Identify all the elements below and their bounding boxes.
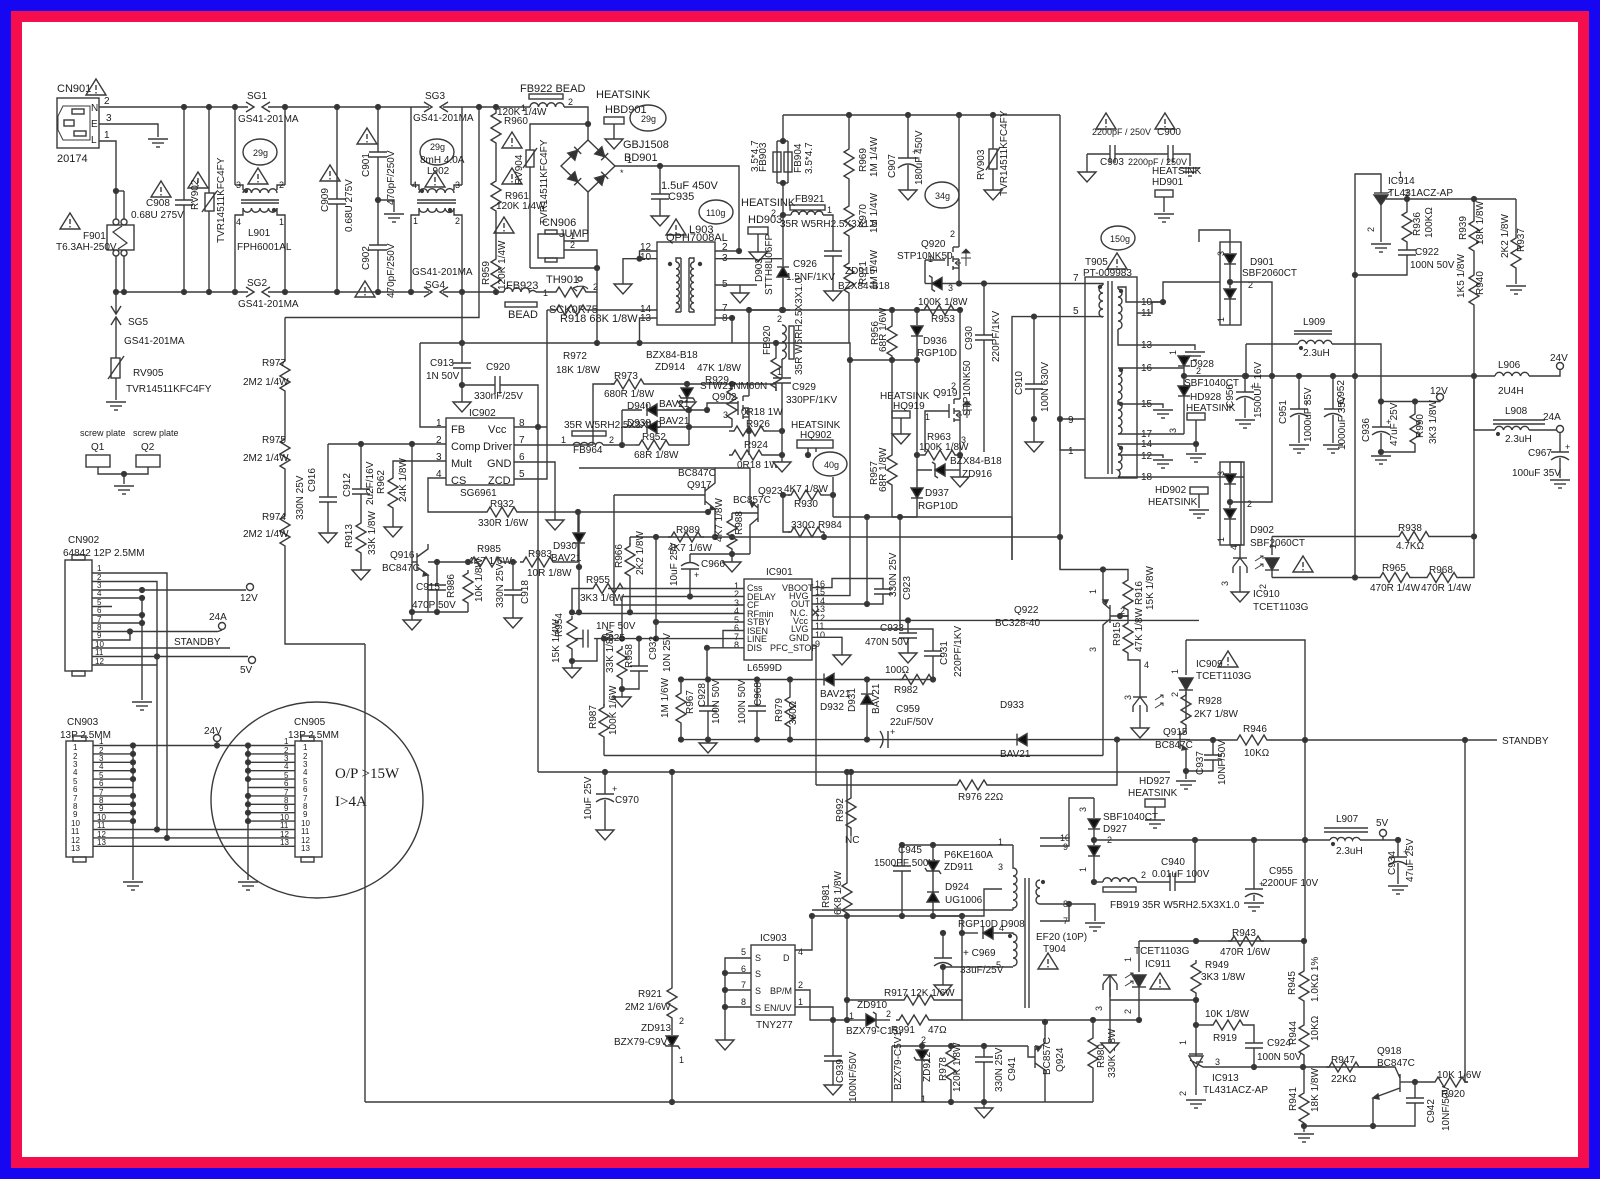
wire HV rail xyxy=(783,114,1060,116)
svg-text:11: 11 xyxy=(71,827,80,836)
svg-text:SG6961: SG6961 xyxy=(460,488,497,499)
resistor R959 xyxy=(491,256,501,292)
resistor R980 xyxy=(1088,1020,1098,1102)
resistor R975 xyxy=(280,436,290,513)
wire y343 rail xyxy=(420,342,776,344)
wire R943 line xyxy=(1139,940,1304,942)
svg-text:470pF/250V: 470pF/250V xyxy=(386,243,397,298)
wire y845 primary rail xyxy=(902,844,1013,846)
capacitor C915 xyxy=(428,562,446,612)
svg-text:+ C969: + C969 xyxy=(963,948,996,959)
svg-text:O/P >15W: O/P >15W xyxy=(335,766,400,782)
resistor R967 xyxy=(676,680,686,740)
svg-text:R939: R939 xyxy=(1458,216,1469,240)
svg-text:STTH8L06FP: STTH8L06FP xyxy=(764,234,775,295)
svg-text:5V: 5V xyxy=(1376,818,1389,829)
svg-text:110g: 110g xyxy=(706,208,725,218)
svg-text:3: 3 xyxy=(1168,428,1178,433)
svg-text:TVR14511KFC4FY: TVR14511KFC4FY xyxy=(539,139,550,225)
svg-text:1: 1 xyxy=(543,288,548,298)
resistor R949 xyxy=(1191,960,1201,1025)
winding C xyxy=(1118,446,1122,477)
svg-text:GS41-201MA: GS41-201MA xyxy=(238,299,299,310)
svg-text:12: 12 xyxy=(1141,451,1153,462)
wire SG5 branch xyxy=(115,292,117,300)
svg-text:R966: R966 xyxy=(614,544,625,568)
pin6 GND wire xyxy=(514,462,555,520)
svg-text:C936: C936 xyxy=(1361,418,1372,442)
svg-text:2: 2 xyxy=(886,1009,891,1019)
svg-text:29g: 29g xyxy=(430,142,445,152)
svg-text:0.68U 275V: 0.68U 275V xyxy=(131,210,184,221)
svg-text:2M2 1/4W: 2M2 1/4W xyxy=(243,529,289,540)
wire y517 line xyxy=(833,516,1012,518)
svg-text:0.68U 275V: 0.68U 275V xyxy=(344,179,355,232)
svg-text:2: 2 xyxy=(1123,1009,1133,1014)
capacitor C934 xyxy=(1389,838,1407,884)
svg-text:C930: C930 xyxy=(964,326,975,350)
svg-text:29g: 29g xyxy=(253,148,268,158)
svg-text:3K3 1/8W: 3K3 1/8W xyxy=(1428,400,1439,444)
wire pin13 to gnd xyxy=(1137,345,1195,350)
svg-text:C916: C916 xyxy=(307,468,318,492)
svg-text:4: 4 xyxy=(798,947,803,957)
svg-text:2: 2 xyxy=(609,435,614,445)
diode D901 dual xyxy=(1220,242,1241,325)
svg-text:2: 2 xyxy=(279,180,284,190)
svg-text:470R 1/4W: 470R 1/4W xyxy=(1421,583,1472,594)
svg-text:1M 1/6W: 1M 1/6W xyxy=(660,677,671,718)
wire gnd line xyxy=(1304,1125,1373,1127)
capacitor C916 xyxy=(319,444,337,533)
svg-text:1: 1 xyxy=(627,155,632,165)
varistor RV903 xyxy=(986,115,1000,190)
svg-text:9: 9 xyxy=(1063,842,1068,852)
output spec ellipse xyxy=(211,702,423,898)
ground xyxy=(106,402,126,410)
svg-text:Vcc: Vcc xyxy=(488,424,507,436)
wire to bridge xyxy=(564,107,588,140)
svg-text:C929: C929 xyxy=(792,382,816,393)
svg-text:HD928: HD928 xyxy=(1190,392,1222,403)
svg-text:TCET1103G: TCET1103G xyxy=(1196,671,1252,682)
svg-text:C901: C901 xyxy=(361,153,372,177)
svg-text:4: 4 xyxy=(412,180,417,190)
svg-text:33K 1/8W: 33K 1/8W xyxy=(367,511,378,555)
wire ref line xyxy=(1234,1066,1385,1068)
svg-text:34g: 34g xyxy=(935,191,950,201)
junction dots bottom rail xyxy=(114,290,119,295)
svg-text:470pF/250V: 470pF/250V xyxy=(386,150,397,205)
svg-text:S: S xyxy=(755,1003,761,1013)
svg-text:2K2 1/8W: 2K2 1/8W xyxy=(635,531,646,575)
svg-text:47uF 25V: 47uF 25V xyxy=(1389,402,1400,446)
resistor R962 xyxy=(388,475,398,527)
svg-text:3: 3 xyxy=(998,862,1003,872)
capacitor C952 xyxy=(1324,376,1342,443)
capacitor C908 xyxy=(175,107,193,292)
svg-text:3: 3 xyxy=(1216,471,1226,476)
wire IC903 drain xyxy=(795,916,812,950)
svg-text:R972: R972 xyxy=(563,351,587,362)
svg-text:Mult: Mult xyxy=(451,458,472,470)
pin3 Mult wire xyxy=(393,461,446,475)
svg-text:3: 3 xyxy=(1094,1006,1104,1011)
svg-text:330N 25V: 330N 25V xyxy=(295,475,306,520)
svg-text:C959: C959 xyxy=(896,704,920,715)
svg-text:330N 25V: 330N 25V xyxy=(888,552,899,597)
svg-text:5V: 5V xyxy=(240,665,253,676)
svg-text:100KΩ: 100KΩ xyxy=(1424,207,1435,238)
svg-text:2: 2 xyxy=(455,216,460,226)
svg-text:2: 2 xyxy=(921,1035,926,1045)
svg-text:13: 13 xyxy=(301,844,310,853)
svg-text:15K 1/4W: 15K 1/4W xyxy=(551,619,562,663)
wire pin15 to gnd xyxy=(1137,404,1163,408)
transformer L903 xyxy=(657,242,715,325)
svg-text:S: S xyxy=(755,986,761,996)
svg-text:330N 25V: 330N 25V xyxy=(994,1047,1005,1092)
svg-text:IC902: IC902 xyxy=(469,408,496,419)
svg-text:2: 2 xyxy=(798,980,803,990)
svg-text:4: 4 xyxy=(1144,660,1149,670)
svg-text:100NF/50V: 100NF/50V xyxy=(848,1051,859,1102)
node C901/C902 to ground xyxy=(376,198,381,203)
svg-text:1K5 1/8W: 1K5 1/8W xyxy=(1456,254,1467,298)
resistor R992 xyxy=(846,770,856,836)
svg-text:47K 1/8W: 47K 1/8W xyxy=(697,363,741,374)
svg-text:10uF 25V: 10uF 25V xyxy=(583,776,594,820)
svg-text:TVR14511KFC4FY: TVR14511KFC4FY xyxy=(126,384,212,395)
svg-text:5: 5 xyxy=(741,947,746,957)
capacitor C918 xyxy=(504,562,522,618)
svg-text:L906: L906 xyxy=(1498,360,1521,371)
svg-text:1: 1 xyxy=(561,435,566,445)
svg-text:6: 6 xyxy=(284,779,289,788)
wire long y1102 xyxy=(365,1101,1093,1103)
svg-text:HEATSINK: HEATSINK xyxy=(1128,788,1178,799)
svg-text:6: 6 xyxy=(73,785,78,794)
svg-text:3: 3 xyxy=(1216,251,1226,256)
svg-text:18K 1/8W: 18K 1/8W xyxy=(1310,1068,1321,1112)
wire pin14/12 xyxy=(1137,443,1196,445)
svg-text:STW21NM60N: STW21NM60N xyxy=(700,381,767,392)
svg-text:R975: R975 xyxy=(262,435,286,446)
svg-text:C923: C923 xyxy=(902,576,913,600)
svg-text:4: 4 xyxy=(1229,545,1239,550)
svg-text:BC847C: BC847C xyxy=(382,563,420,574)
svg-text:+: + xyxy=(612,784,617,794)
svg-text:ZD912: ZD912 xyxy=(922,1052,933,1082)
svg-text:L: L xyxy=(91,135,97,146)
zener ZD916 xyxy=(917,455,960,478)
svg-text:TNY277: TNY277 xyxy=(756,1020,793,1031)
winding A xyxy=(1118,289,1122,329)
svg-text:JUMP: JUMP xyxy=(559,228,589,240)
svg-text:1: 1 xyxy=(679,1055,684,1065)
capacitor C920 xyxy=(462,376,538,427)
svg-text:680R 1/8W: 680R 1/8W xyxy=(604,389,655,400)
svg-text:R944: R944 xyxy=(1288,1021,1299,1045)
wire N top rail xyxy=(99,106,248,108)
svg-text:100N 50V: 100N 50V xyxy=(737,679,748,724)
svg-text:330N 25V: 330N 25V xyxy=(495,563,506,608)
svg-text:2.3uH: 2.3uH xyxy=(1505,434,1532,445)
svg-text:35R W5RH2.5X3X1.0: 35R W5RH2.5X3X1.0 xyxy=(794,277,805,375)
svg-text:1: 1 xyxy=(303,743,308,752)
svg-text:C935: C935 xyxy=(668,191,694,203)
resistor R969 xyxy=(844,115,854,203)
pin5 STBY wire xyxy=(656,621,744,623)
svg-text:3: 3 xyxy=(1220,581,1230,586)
svg-text:6K8 1/8W: 6K8 1/8W xyxy=(833,871,844,915)
resistor R986 xyxy=(463,570,473,612)
svg-text:2: 2 xyxy=(570,240,575,250)
ferrite bead FB904 xyxy=(777,139,792,266)
svg-text:470P 50V: 470P 50V xyxy=(412,600,456,611)
capacitor C936b 47uF xyxy=(1372,402,1390,453)
svg-text:24A: 24A xyxy=(1543,412,1561,423)
svg-text:22KΩ: 22KΩ xyxy=(1331,1074,1357,1085)
ferrite bead FB903 xyxy=(773,115,783,183)
svg-text:220PF/1KV: 220PF/1KV xyxy=(953,626,964,677)
resistor R928 xyxy=(1181,692,1191,731)
wire EN/UV pin xyxy=(795,1007,833,1020)
svg-text:2.3uH: 2.3uH xyxy=(1336,846,1363,857)
svg-text:64842 12P 2.5MM: 64842 12P 2.5MM xyxy=(63,548,145,559)
svg-text:470R 1/4W: 470R 1/4W xyxy=(1370,583,1421,594)
svg-text:3: 3 xyxy=(1123,695,1133,700)
svg-text:1: 1 xyxy=(279,217,284,227)
svg-text:C939: C939 xyxy=(835,1059,846,1083)
svg-text:BC328-40: BC328-40 xyxy=(995,618,1040,629)
svg-text:3: 3 xyxy=(1078,807,1088,812)
svg-text:4: 4 xyxy=(284,762,289,771)
svg-text:D931: D931 xyxy=(847,688,858,712)
capacitor C931 xyxy=(891,629,942,680)
wire D901 pin2 down xyxy=(1230,282,1272,376)
svg-text:C931: C931 xyxy=(939,641,950,665)
svg-text:100K 1/6W: 100K 1/6W xyxy=(608,685,619,735)
svg-text:R967: R967 xyxy=(685,690,696,714)
resistor R941 xyxy=(1299,1067,1309,1126)
resistor R916 xyxy=(1120,577,1133,616)
svg-text:1000uF 35V: 1000uF 35V xyxy=(1337,395,1348,450)
resistor R937 xyxy=(1511,199,1521,284)
svg-text:R959: R959 xyxy=(481,261,492,285)
wire R946 line xyxy=(1180,739,1186,741)
wire IC914 top rail xyxy=(1407,198,1516,200)
svg-text:R965: R965 xyxy=(1382,563,1406,574)
svg-text:4.7KΩ: 4.7KΩ xyxy=(1396,541,1425,552)
weight 150g xyxy=(1101,226,1135,250)
svg-text:EN/UV: EN/UV xyxy=(764,1003,792,1013)
svg-text:D928: D928 xyxy=(1190,359,1214,370)
svg-text:R949: R949 xyxy=(1205,960,1229,971)
resistor R958 xyxy=(617,646,627,697)
svg-text:3: 3 xyxy=(723,410,728,420)
wire y1022 rail xyxy=(962,1019,1139,1021)
pin3 CF wire xyxy=(614,495,744,605)
svg-text:BAV21: BAV21 xyxy=(1000,749,1031,760)
svg-text:4K7 1/8W: 4K7 1/8W xyxy=(714,498,725,542)
pin13 NC xyxy=(812,609,819,616)
svg-text:SG3: SG3 xyxy=(425,91,445,102)
svg-text:R921: R921 xyxy=(638,989,662,1000)
varistor RV904 xyxy=(523,148,537,268)
svg-text:100N 50V: 100N 50V xyxy=(1257,1052,1302,1063)
svg-text:C942: C942 xyxy=(1426,1099,1437,1123)
svg-text:47Ω: 47Ω xyxy=(928,1025,947,1036)
resistor R987 xyxy=(599,636,609,755)
pin7 Driver wire xyxy=(514,444,593,446)
capacitor C910 xyxy=(1025,317,1043,442)
svg-text:1: 1 xyxy=(1068,446,1074,457)
wire y916 line xyxy=(812,915,962,917)
wire pin7 lower rail xyxy=(749,309,960,311)
svg-text:C932: C932 xyxy=(648,636,659,660)
svg-text:C922: C922 xyxy=(1415,247,1439,258)
svg-text:D937: D937 xyxy=(925,488,949,499)
svg-text:BZX79-C9V1: BZX79-C9V1 xyxy=(614,1037,673,1048)
svg-text:3K3 1/8W: 3K3 1/8W xyxy=(1201,972,1245,983)
capacitor C941 xyxy=(975,1046,993,1102)
CN902 pin wires xyxy=(92,572,112,574)
svg-text:BAV21: BAV21 xyxy=(551,553,582,564)
svg-text:C918: C918 xyxy=(520,580,531,604)
pin9 PFC_STOP xyxy=(812,646,816,785)
capacitor C912 xyxy=(352,444,370,520)
svg-text:SBF1040CT: SBF1040CT xyxy=(1103,812,1158,823)
junction dots top rail xyxy=(182,105,187,110)
svg-text:Q922: Q922 xyxy=(1014,605,1039,616)
svg-text:SG1: SG1 xyxy=(247,91,267,102)
svg-text:CS: CS xyxy=(451,475,466,487)
resistor R972 xyxy=(771,341,781,391)
resistor R940 xyxy=(1469,272,1479,376)
svg-text:330K 1/8W: 330K 1/8W xyxy=(1107,1028,1118,1078)
svg-text:C940: C940 xyxy=(1161,857,1185,868)
svg-text:3.5*4.7: 3.5*4.7 xyxy=(804,142,815,174)
svg-text:GS41-201MA: GS41-201MA xyxy=(124,336,185,347)
wire Q917 collector line xyxy=(579,467,715,469)
svg-text:1: 1 xyxy=(1123,957,1133,962)
svg-text:1: 1 xyxy=(97,564,102,573)
svg-text:100N 50V: 100N 50V xyxy=(711,679,722,724)
svg-text:RV904: RV904 xyxy=(514,154,525,185)
capacitor C928 xyxy=(699,680,717,740)
wire pin8/7 gnd xyxy=(1040,903,1069,905)
svg-text:1: 1 xyxy=(284,737,289,746)
svg-text:RV903: RV903 xyxy=(976,149,987,180)
resistor R945 xyxy=(1299,941,1309,1022)
svg-text:2: 2 xyxy=(1178,1091,1188,1096)
svg-text:33K 1/8W: 33K 1/8W xyxy=(605,629,616,673)
svg-text:2: 2 xyxy=(950,229,955,239)
svg-text:IC913: IC913 xyxy=(1212,1073,1239,1084)
wire Vcc supply to Q922 xyxy=(1060,537,1103,570)
svg-text:11: 11 xyxy=(97,821,106,830)
capacitor C929 xyxy=(773,359,791,427)
svg-text:ZD913: ZD913 xyxy=(641,1023,671,1034)
svg-text:1: 1 xyxy=(1088,589,1098,594)
diode D903 xyxy=(777,267,789,310)
wire y679 line xyxy=(681,679,933,681)
wire pin11/12/13 harness xyxy=(93,829,295,831)
svg-text:2: 2 xyxy=(1366,227,1376,232)
svg-text:1: 1 xyxy=(99,737,104,746)
svg-text:GND: GND xyxy=(789,633,810,643)
svg-text:GBJ1508: GBJ1508 xyxy=(623,139,669,151)
svg-text:C926: C926 xyxy=(793,259,817,270)
wire BP/M pin xyxy=(795,990,833,1020)
svg-text:10N 25V: 10N 25V xyxy=(662,633,673,672)
IC903 TNY277 xyxy=(751,945,795,1015)
svg-text:BZX84-B18: BZX84-B18 xyxy=(838,281,890,292)
svg-text:2K7 1/8W: 2K7 1/8W xyxy=(1194,709,1238,720)
svg-text:180uF 450V: 180uF 450V xyxy=(914,130,925,185)
wire y739 gnd line xyxy=(681,739,790,741)
svg-text:Q918: Q918 xyxy=(1377,1046,1402,1057)
svg-text:FB964: FB964 xyxy=(573,445,603,456)
base line wire xyxy=(428,561,468,563)
svg-text:470N 50V: 470N 50V xyxy=(865,637,910,648)
capacitor C923 xyxy=(867,589,892,604)
svg-text:9: 9 xyxy=(99,804,104,813)
svg-text:R981: R981 xyxy=(821,884,832,908)
svg-text:330PF/1KV: 330PF/1KV xyxy=(786,395,837,406)
wire L902 leg to y343 rail xyxy=(461,292,463,343)
svg-text:Q2: Q2 xyxy=(141,442,155,453)
weight 40g xyxy=(813,452,847,476)
svg-text:35R W5RH2.5X3X1.0: 35R W5RH2.5X3X1.0 xyxy=(564,420,662,431)
wire IC909 loop to right xyxy=(1186,640,1305,941)
capacitor C909 xyxy=(328,107,346,292)
wire T905 pin18 to D902 xyxy=(1230,462,1244,477)
svg-text:DIS: DIS xyxy=(747,643,762,653)
svg-text:1: 1 xyxy=(521,103,526,113)
svg-text:C968: C968 xyxy=(753,682,764,706)
svg-text:150g: 150g xyxy=(1110,234,1130,244)
resistor R973 line xyxy=(593,384,614,445)
svg-text:R978: R978 xyxy=(938,1057,949,1081)
svg-text:Q923: Q923 xyxy=(758,486,783,497)
resistor R978 xyxy=(946,1047,956,1102)
wire HV line y772 to R921 xyxy=(670,770,675,775)
svg-text:2U4H: 2U4H xyxy=(1498,386,1524,397)
svg-text:9: 9 xyxy=(73,810,78,819)
svg-text:1: 1 xyxy=(921,1094,926,1104)
svg-text:9: 9 xyxy=(97,631,102,640)
svg-text:BAV21: BAV21 xyxy=(871,683,882,714)
resistor R936 xyxy=(1402,199,1412,250)
svg-text:BP/M: BP/M xyxy=(770,986,792,996)
wire D902 pin2 xyxy=(1230,376,1272,502)
wire y1020 line xyxy=(833,1019,852,1021)
svg-text:+: + xyxy=(694,570,699,580)
wire bottom AC rail xyxy=(116,291,248,293)
svg-text:2: 2 xyxy=(771,208,776,218)
optocoupler IC910 xyxy=(1230,545,1263,580)
svg-text:N: N xyxy=(91,103,98,114)
svg-text:RGP10D: RGP10D xyxy=(918,501,958,512)
svg-text:R990: R990 xyxy=(1415,414,1426,438)
svg-text:2u2F/16V: 2u2F/16V xyxy=(365,461,376,505)
svg-text:8: 8 xyxy=(741,997,746,1007)
svg-text:R945: R945 xyxy=(1287,971,1298,995)
diode D931 xyxy=(861,680,873,740)
svg-text:5: 5 xyxy=(1073,306,1079,317)
